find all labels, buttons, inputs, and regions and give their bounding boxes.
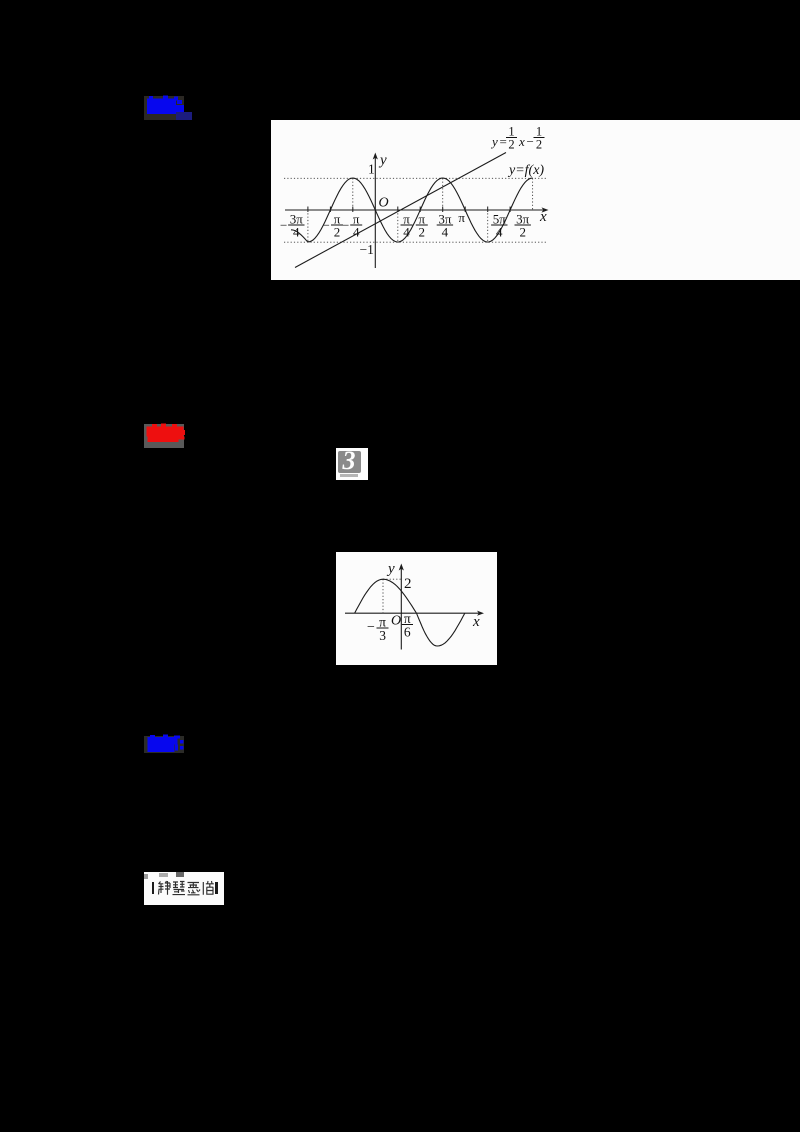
svg-text:4: 4 xyxy=(293,225,300,240)
x tick fraction labels xyxy=(280,210,530,240)
svg-text:2: 2 xyxy=(419,225,426,240)
svg-text:4: 4 xyxy=(353,225,360,240)
svg-text:π: π xyxy=(458,210,465,225)
badge B3 (blue label 2) xyxy=(144,736,184,753)
axis ticks xyxy=(308,207,510,213)
badge B2 red text blob xyxy=(144,420,196,452)
svg-text:−1: −1 xyxy=(360,242,374,257)
x-axis arrow xyxy=(542,207,549,212)
svg-text:3: 3 xyxy=(379,628,386,643)
glyph 2 ti xyxy=(173,881,186,894)
svg-text:−: − xyxy=(367,620,375,635)
svg-text:=: = xyxy=(500,134,507,149)
svg-text:4: 4 xyxy=(496,225,503,240)
label y=(1/2)x-(1/2) xyxy=(490,125,545,152)
right bar of title xyxy=(215,882,218,894)
line y=x/2-1/2 xyxy=(295,153,506,268)
svg-text:y: y xyxy=(490,134,498,149)
svg-text:2: 2 xyxy=(334,225,341,240)
badge N3 gray square xyxy=(338,451,361,473)
dashed guides at peak xyxy=(383,579,401,613)
badge N3 (example number 3 icon) xyxy=(336,448,369,480)
svg-text:4: 4 xyxy=(442,225,449,240)
labels xyxy=(367,561,480,643)
svg-text:−: − xyxy=(342,218,349,233)
glyph 1 jie xyxy=(159,881,171,895)
badge B3 blue text blob xyxy=(144,733,196,757)
dashed verticals at extrema xyxy=(307,210,309,242)
panel P3 (jie ti gan wu box) xyxy=(144,872,224,905)
badge B1 blue text blob xyxy=(144,92,196,124)
svg-text:−: − xyxy=(527,134,534,149)
dashed guide y=1 xyxy=(284,178,547,242)
fraction bars xyxy=(288,224,531,226)
svg-text:x: x xyxy=(472,614,480,630)
svg-text:2: 2 xyxy=(404,576,412,592)
svg-text:2: 2 xyxy=(508,138,514,152)
x-axis arrow xyxy=(477,610,484,615)
curve y=f(x) xyxy=(291,178,533,242)
svg-text:O: O xyxy=(379,196,389,211)
svg-text:y: y xyxy=(386,561,395,577)
glyph 3 gan xyxy=(188,882,201,894)
badge N3 shadow strip xyxy=(340,474,358,477)
svg-text:y: y xyxy=(378,153,387,169)
svg-text:x: x xyxy=(518,134,525,149)
y-axis arrow xyxy=(399,563,404,570)
badge B1 navy block xyxy=(176,112,192,120)
curve 2sin xyxy=(355,579,465,646)
title glyphs (approximation of CJK text) xyxy=(157,880,215,897)
svg-text:4: 4 xyxy=(403,225,410,240)
svg-text:1: 1 xyxy=(508,125,514,139)
dashed guide y=-1 xyxy=(284,241,547,243)
svg-text:6: 6 xyxy=(404,624,411,639)
y-axis xyxy=(400,567,402,650)
glyph 4 wu xyxy=(203,881,214,895)
svg-text:y=f(x): y=f(x) xyxy=(507,163,544,178)
labels xyxy=(360,153,548,258)
svg-text:2: 2 xyxy=(519,225,526,240)
badge B1 (blue label, top-left) xyxy=(144,96,184,120)
svg-text:1: 1 xyxy=(368,162,375,177)
y-axis xyxy=(374,156,376,268)
svg-text:−: − xyxy=(323,218,330,233)
gray remnant marks above panel xyxy=(144,874,148,880)
svg-text:x: x xyxy=(539,209,547,225)
x-axis xyxy=(285,209,545,211)
svg-text:1: 1 xyxy=(536,125,542,139)
badge N3 digit xyxy=(338,449,361,472)
badge B2 (red label) xyxy=(144,424,184,448)
svg-text:O: O xyxy=(391,613,401,628)
svg-text:−: − xyxy=(280,218,287,233)
y-axis arrow xyxy=(373,153,378,160)
x-axis xyxy=(345,612,481,614)
svg-text:2: 2 xyxy=(536,138,542,152)
left bar of title xyxy=(152,882,155,894)
figure F2 (graph of y=2sin curve) white panel xyxy=(336,552,497,665)
figure F1 (graph of y=f(x) and y=x/2-1/2) white panel xyxy=(271,120,800,280)
